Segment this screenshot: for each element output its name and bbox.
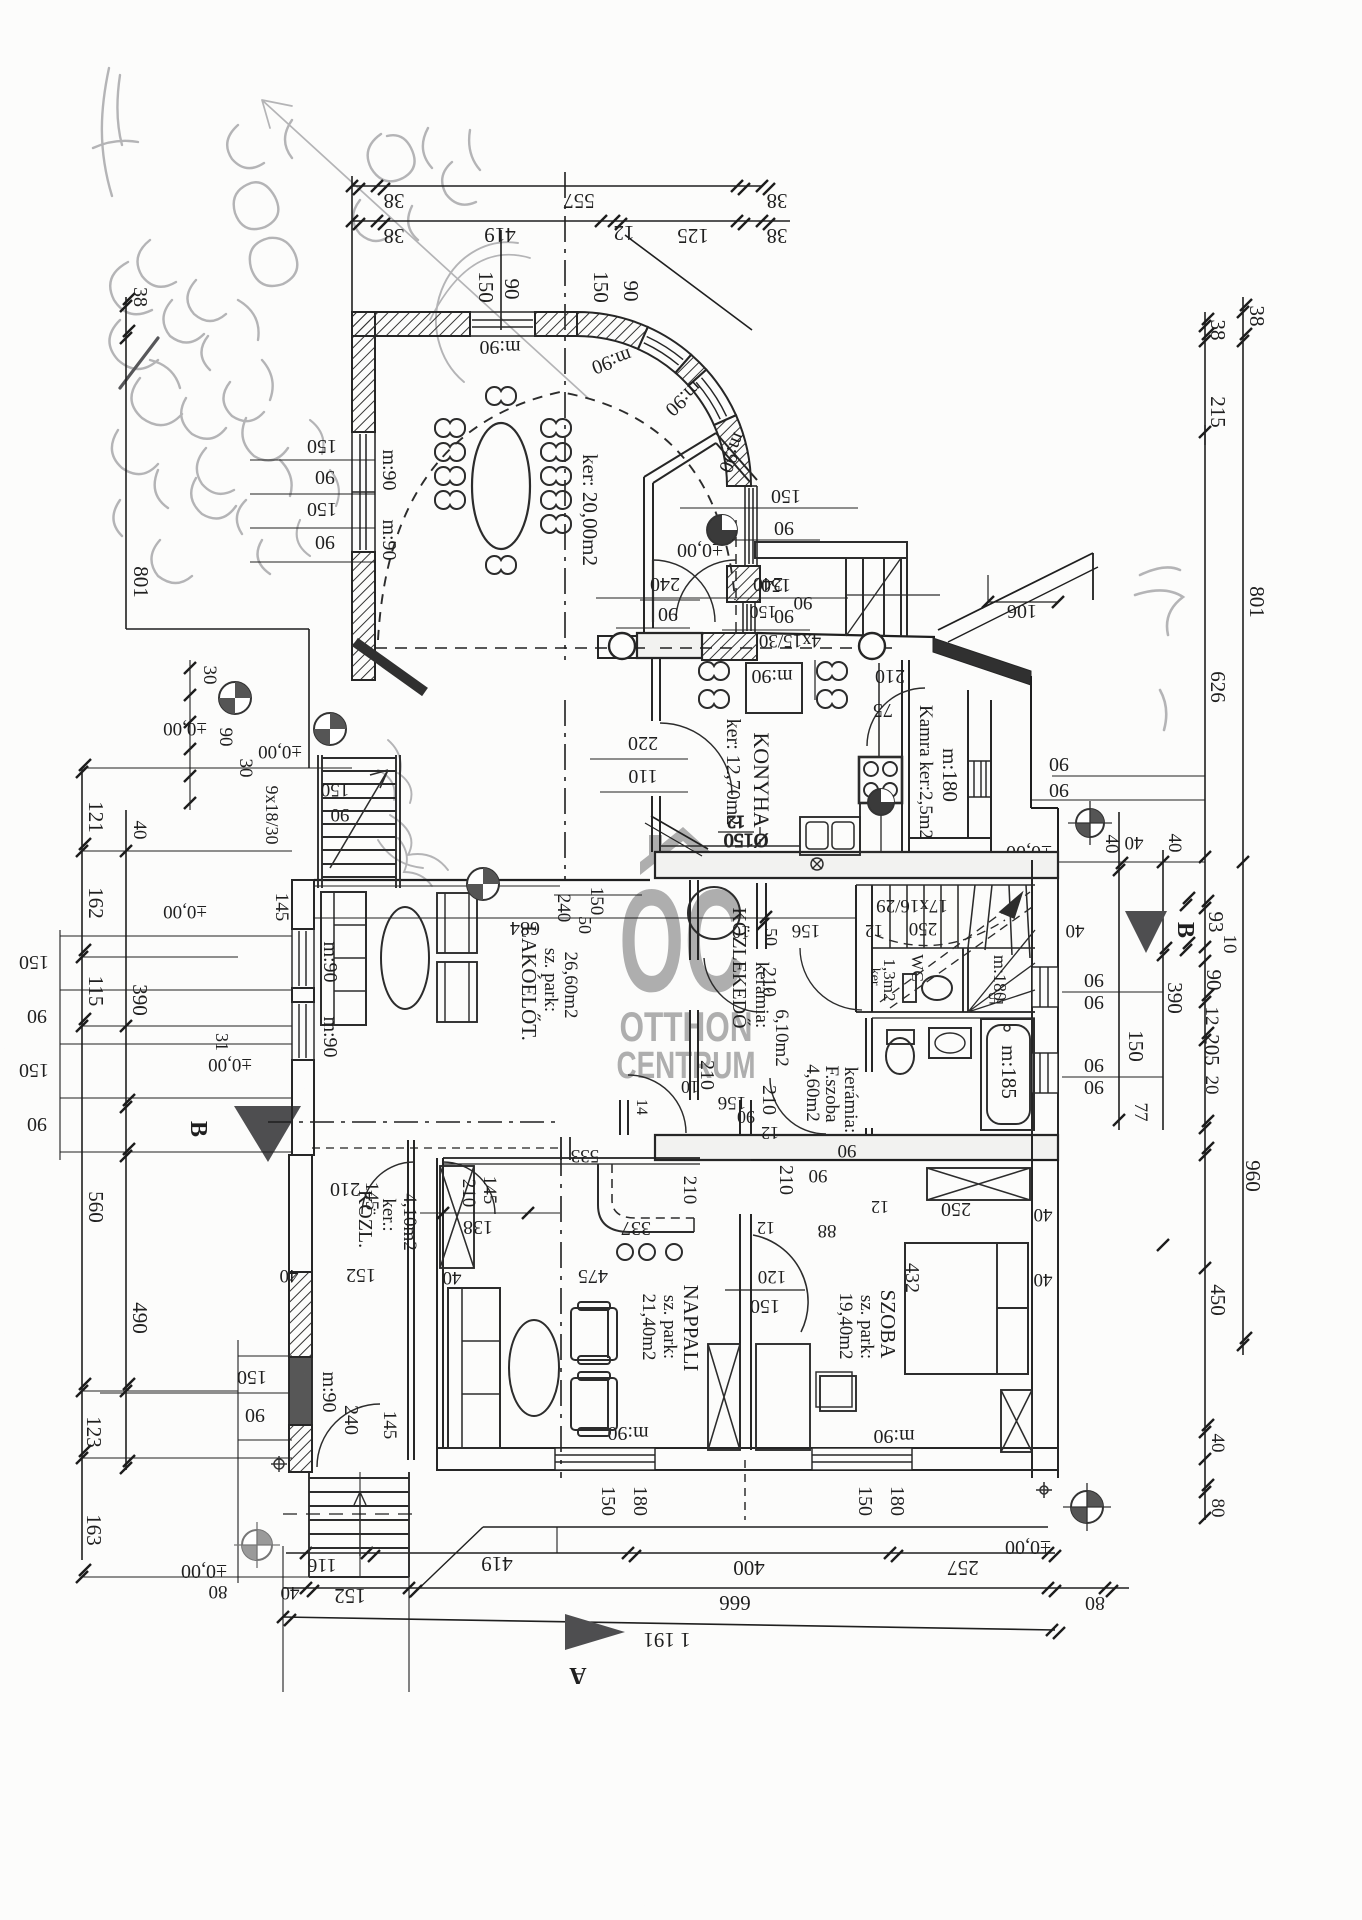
survey circle entry dark bbox=[707, 515, 737, 545]
LAKOELOT sofa bbox=[321, 892, 366, 1025]
kamra right outer contour bbox=[1030, 676, 1032, 808]
centerline vertical dash-dot bbox=[564, 172, 566, 660]
left stairs 9x18/30 bbox=[318, 755, 400, 888]
survey cross KOZL bbox=[271, 1456, 287, 1472]
door leaf at room corner bbox=[355, 642, 425, 692]
dashed ceiling arc bbox=[378, 392, 735, 640]
bottom dim line 1191 bbox=[283, 1617, 1055, 1630]
bathroom toilet bbox=[886, 1038, 914, 1074]
NAPPALI sofa 3-seat bbox=[448, 1288, 500, 1448]
kitchen top wall thick bbox=[637, 633, 702, 658]
kamra bottom wall bbox=[909, 838, 991, 852]
corridor left door arc bbox=[362, 1162, 414, 1214]
porch door arc right bbox=[676, 560, 736, 620]
stove bbox=[859, 757, 902, 803]
SZOBA dresser bbox=[756, 1344, 810, 1450]
SZOBA bottom X box bbox=[1001, 1390, 1032, 1452]
kitchen right wall bbox=[902, 660, 909, 852]
interior wall LAKOELOT/corridor vertical bbox=[690, 880, 698, 1100]
bar stools bbox=[617, 1244, 633, 1260]
section line B dashed bbox=[268, 1121, 560, 1123]
NAPPALI wardrobe X bbox=[440, 1166, 474, 1268]
top-right deck diagonal bbox=[938, 553, 1093, 630]
pencil slash mark left bbox=[120, 338, 158, 388]
scan noise overlay bbox=[0, 0, 1, 1]
bottom survey circle right bbox=[1063, 1483, 1111, 1531]
bottom outer wall with windows bbox=[437, 1448, 1058, 1470]
corridor nook wall bbox=[757, 883, 766, 949]
pencil marks near stairs bbox=[378, 740, 432, 886]
column left bbox=[609, 633, 635, 659]
porch left wall bbox=[644, 477, 653, 633]
kitchen chairs bbox=[699, 662, 729, 680]
bottom exterior stairs bbox=[309, 1472, 409, 1577]
dining table oval bbox=[472, 423, 530, 549]
KOZL door arc bbox=[317, 1404, 380, 1467]
left 801 extension line bbox=[125, 297, 127, 629]
window strip below arc bbox=[745, 486, 757, 566]
stair door arc bbox=[800, 948, 862, 1010]
watermark OC Otthon Centrum bbox=[617, 827, 756, 1087]
top wall window bbox=[470, 312, 535, 336]
bathroom door arc bbox=[770, 1078, 826, 1134]
kitchen left wall segments bbox=[652, 658, 660, 852]
bathroom left wall bbox=[866, 1018, 872, 1135]
circular element bbox=[688, 887, 740, 939]
open edge dashed with columns bbox=[375, 647, 645, 649]
survey circle top-left 2 bbox=[314, 713, 346, 745]
corridor left door arc2 bbox=[443, 1162, 495, 1214]
SZOBA wardrobe top X bbox=[927, 1168, 1030, 1200]
bathroom top wall bbox=[856, 1011, 1035, 1013]
house outer right wall lower bbox=[1032, 860, 1058, 1478]
KOZL top opening bbox=[312, 1147, 564, 1149]
kitchen counter bbox=[860, 803, 902, 852]
kitchen sink bbox=[800, 817, 860, 855]
NAPPALI/SZOBA divider wall bbox=[740, 1214, 751, 1450]
pencil numeral 4 scribble bbox=[93, 68, 138, 196]
right dim line 4 bbox=[1118, 812, 1120, 1130]
survey circle top-left 1 bbox=[219, 682, 251, 714]
kitchen diagonal corner bbox=[651, 816, 708, 849]
arc wall hatched segment 3 bbox=[714, 415, 751, 486]
pencil loops cluster B bbox=[109, 262, 182, 425]
bottom terrace outline bbox=[409, 1527, 483, 1598]
corner block hatched bbox=[727, 566, 760, 602]
bottom dim line 666 bbox=[283, 1587, 1129, 1589]
WC top wall under stairs bbox=[872, 947, 1035, 949]
survey circle kitchen dark bbox=[868, 789, 894, 815]
nappali entry jamb bbox=[561, 1137, 570, 1160]
porch diagonal walls bbox=[644, 433, 757, 483]
kitchen counter lines bbox=[814, 660, 816, 700]
NAPPALI armchairs bbox=[571, 1302, 617, 1364]
bar counter L dashed bbox=[598, 1164, 694, 1232]
top dimension line 419/12/125 bbox=[352, 220, 790, 222]
right dim line 3 bbox=[1162, 850, 1164, 1130]
KOZL window dim column bbox=[237, 1340, 239, 1583]
kitchen bottom thick wall bbox=[655, 852, 1058, 878]
section arrow A bbox=[565, 1614, 625, 1650]
round room window dim labels left bbox=[250, 459, 375, 461]
dining chair top bbox=[486, 387, 516, 405]
kamra window bbox=[968, 761, 991, 797]
leader line to arc window bbox=[500, 230, 502, 330]
porch dashed center bbox=[735, 520, 737, 633]
round room left wall upper (hatched) bbox=[352, 312, 375, 432]
toilet WC bbox=[922, 976, 952, 1000]
left dim line column 1 bbox=[81, 768, 83, 1560]
NAPPALI left wall bbox=[437, 1158, 443, 1448]
SZOBA nightstand bbox=[820, 1376, 856, 1411]
round room left wall window bbox=[352, 432, 375, 552]
pencil diagonal with arrow bbox=[262, 100, 588, 398]
right dim line outer 960 bbox=[1242, 297, 1244, 1355]
entry 150/90 dim lines bbox=[680, 507, 858, 509]
entry landing bbox=[598, 636, 642, 658]
right dim line 2 bbox=[1204, 312, 1206, 1520]
kamra east wall with window bbox=[968, 690, 991, 838]
bottom dim line 419/400/257 bbox=[286, 1552, 1055, 1554]
porch door arc left bbox=[653, 560, 715, 622]
SZOBA bed bbox=[905, 1243, 1028, 1374]
KOZL dark wall block bbox=[289, 1357, 312, 1425]
pencil loops cluster C bbox=[368, 128, 480, 205]
pencil scribble in left room bbox=[378, 773, 448, 870]
left horizontal extension lines bbox=[82, 767, 352, 769]
right dash-dot centerline short bbox=[1204, 425, 1206, 445]
entry stairs 4x15/30 bbox=[755, 542, 940, 636]
dashes through stairs bbox=[283, 1513, 420, 1515]
section marker B left triangle bbox=[234, 1106, 301, 1162]
porch window right bbox=[743, 602, 755, 633]
LAKOELOT armchairs bbox=[437, 893, 477, 953]
KOZL left wall hatched bbox=[289, 1155, 312, 1272]
left dim line column 2 bbox=[125, 810, 127, 1470]
NAPPALI top wall bbox=[443, 1157, 700, 1159]
pencil squiggle right side bbox=[1135, 567, 1183, 730]
SZOBA door arc bbox=[753, 1235, 808, 1332]
right wall windows bbox=[1032, 967, 1058, 1093]
KOZL right wall bbox=[408, 1140, 414, 1460]
dining chairs right bbox=[541, 419, 571, 437]
pencil loops cluster A bbox=[234, 182, 298, 286]
far-left window dim column bbox=[59, 930, 61, 1160]
center dashed line NAPPALI bbox=[560, 1150, 562, 1478]
winder stairs 17x16/29 bbox=[856, 885, 1035, 1012]
SZOBA top wall bbox=[751, 1159, 1058, 1161]
arc window 2 bbox=[689, 370, 737, 425]
kamra diagonal wall thick bbox=[933, 638, 1031, 685]
WC right wall bbox=[963, 948, 968, 1012]
corridor/stair divider wall bbox=[856, 885, 872, 1012]
pencil arc through top window bbox=[436, 242, 518, 382]
column right bbox=[859, 633, 885, 659]
corridor door walls lower bbox=[620, 1100, 628, 1135]
wall segment right of stairs bbox=[757, 633, 935, 637]
106 dim top right bbox=[988, 601, 1058, 603]
arc window 1 bbox=[638, 327, 691, 373]
LAKOELOT left wall segments bbox=[292, 880, 314, 929]
top-left dim ticks cluster bbox=[184, 662, 196, 674]
right B triangle bbox=[1125, 911, 1167, 953]
corridor bottom door arc bbox=[628, 1075, 686, 1133]
kitchen top 240/110/220 helper lines bbox=[640, 599, 700, 601]
kitchen table bbox=[746, 663, 802, 713]
NAPPALI left X wardrobe 2 bbox=[708, 1344, 740, 1450]
top wall segment to arc bbox=[535, 312, 577, 336]
dining chair bottom bbox=[486, 556, 516, 574]
nappali door arc right bbox=[1100, 1082, 1162, 1144]
extension line left bbox=[351, 176, 353, 312]
bottom survey circle left bbox=[234, 1522, 280, 1568]
right quartered circle bbox=[1068, 801, 1112, 845]
arc wall hatched segment 2 bbox=[675, 355, 706, 386]
round room left wall lower (hatched) bbox=[352, 552, 375, 680]
top dimension line 557 bbox=[352, 185, 762, 187]
round room top wall (hatched) bbox=[352, 312, 470, 336]
LAKOELOT oval table bbox=[381, 907, 429, 1009]
bathtub bbox=[981, 1019, 1034, 1130]
kamra door arc bbox=[867, 688, 925, 746]
divider top segment bbox=[740, 1100, 751, 1136]
arc wall hatched segment 1 bbox=[577, 312, 648, 349]
survey circle mid-left bbox=[467, 868, 499, 900]
NAPPALI oval table bbox=[509, 1320, 559, 1416]
kitchen door arc bbox=[660, 723, 732, 795]
small survey cross bbox=[1036, 1482, 1052, 1498]
corridor top door arc bbox=[704, 958, 765, 1012]
dining chairs left bbox=[435, 419, 465, 437]
bathroom sink bbox=[929, 1028, 971, 1058]
LAKOELOT top wall bbox=[314, 879, 650, 881]
corridor/bath bottom thick wall bbox=[655, 1135, 1058, 1160]
